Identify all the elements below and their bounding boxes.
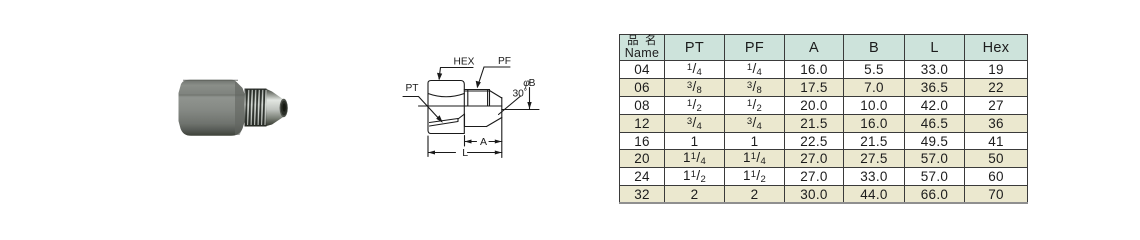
L dimension line	[428, 152, 502, 154]
HEX arrow	[437, 73, 442, 81]
PT leader	[403, 97, 442, 122]
hex body	[179, 80, 245, 136]
phiB dimension line with arrow	[529, 88, 531, 110]
svg-text:PF: PF	[498, 56, 511, 67]
threaded section	[245, 89, 267, 127]
A left arrow	[465, 140, 472, 144]
product photo: hex female PT x male flare adapter	[168, 58, 318, 158]
svg-text:L: L	[462, 147, 468, 159]
L right arrow	[495, 151, 502, 155]
extension lines for A and L	[428, 136, 465, 157]
step down / nose bottom (section)	[465, 114, 487, 127]
svg-text:30˚: 30˚	[513, 87, 528, 99]
svg-text:B: B	[529, 78, 536, 89]
phiB arrow (down)	[527, 102, 531, 109]
flare cone top	[490, 91, 502, 99]
A dimension line	[465, 141, 502, 143]
PF leader	[477, 67, 510, 87]
tip face	[280, 99, 288, 117]
L left arrow	[428, 151, 435, 155]
thread section top (double line)	[464, 90, 489, 92]
bore bottom to step	[458, 114, 465, 119]
HEX leader	[439, 68, 473, 80]
technical line drawing	[395, 48, 550, 168]
phiB extension line	[502, 109, 539, 111]
hex facet arc	[428, 94, 464, 97]
arrowheads	[428, 73, 532, 155]
bore / center line	[419, 105, 502, 107]
hex top edge line	[183, 79, 238, 81]
hex body outline	[428, 81, 464, 134]
hex right edge shade	[235, 82, 245, 136]
PT arrow	[436, 115, 443, 123]
thread ridges	[246, 89, 265, 126]
PF arrow	[476, 81, 481, 89]
tip face / right extension line	[501, 98, 503, 158]
flare seat bottom diagonal	[487, 118, 502, 127]
svg-text:A: A	[480, 136, 487, 148]
A right arrow	[495, 140, 502, 144]
thread verticals	[468, 90, 490, 106]
specification table	[619, 34, 1028, 204]
nose cone	[267, 89, 285, 126]
svg-text:HEX: HEX	[454, 57, 475, 68]
hex facet line	[179, 94, 244, 96]
svg-text:PT: PT	[406, 83, 419, 94]
30 deg leader	[499, 96, 521, 115]
labels	[406, 56, 536, 159]
PT internal thread taper	[430, 119, 459, 127]
